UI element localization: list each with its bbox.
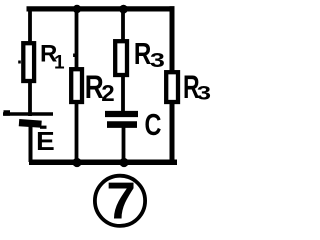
svg-text:3: 3 bbox=[197, 83, 211, 104]
svg-text:2: 2 bbox=[101, 80, 114, 105]
svg-text:E: E bbox=[36, 127, 55, 156]
svg-text:C: C bbox=[145, 107, 162, 142]
svg-text:R: R bbox=[134, 36, 151, 71]
svg-text:3: 3 bbox=[150, 49, 165, 72]
svg-text:7: 7 bbox=[106, 172, 136, 229]
svg-text:1: 1 bbox=[54, 52, 65, 73]
